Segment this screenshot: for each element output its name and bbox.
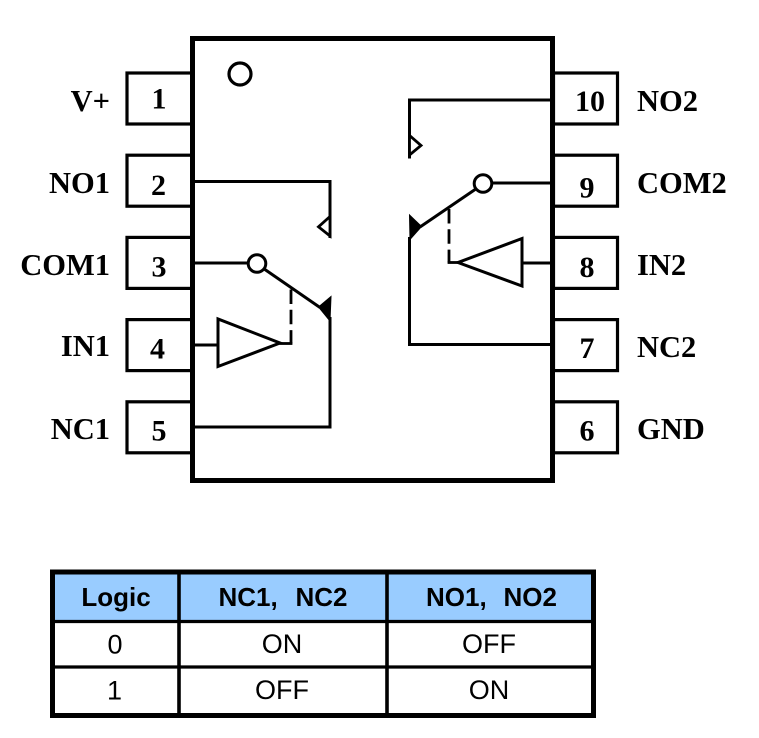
truth table column divider 2: [385, 572, 389, 716]
pin 1 box: [127, 73, 192, 124]
dashed control line SW1 corner to buffer output: [280, 342, 293, 345]
svg-text:4: 4: [150, 333, 165, 366]
truth table header background: [55, 575, 591, 621]
svg-text:IN1: IN1: [61, 329, 110, 363]
pin 2 box: [127, 155, 192, 206]
switch SW2 pivot circle: [474, 175, 492, 193]
svg-text:2: 2: [151, 169, 166, 202]
pin 6 box: [554, 402, 618, 453]
truth table outer border: [53, 572, 594, 716]
pin-1 indicator dot: [229, 63, 251, 85]
svg-text:COM2: COM2: [637, 166, 727, 200]
wire NC2 to pin 7: [410, 237, 551, 345]
switch SW1 pivot circle: [248, 255, 266, 273]
svg-text:COM1: COM1: [20, 248, 110, 282]
wire COM2 from pin 9: [492, 182, 551, 185]
svg-text:ON: ON: [469, 675, 510, 705]
dashed control line SW1: [290, 290, 293, 344]
dashed control line SW2 corner to buffer output: [448, 261, 459, 264]
NO1 contact open triangle: [319, 217, 331, 237]
pin 10 box: [554, 73, 618, 124]
pin 4 box: [127, 320, 192, 371]
svg-text:NC1: NC1: [51, 412, 110, 446]
svg-text:10: 10: [575, 85, 605, 118]
svg-text:NC2: NC2: [637, 330, 696, 364]
svg-text:NO2: NO2: [637, 84, 698, 118]
svg-text:Logic: Logic: [81, 582, 150, 612]
svg-text:OFF: OFF: [255, 675, 309, 705]
buffer B1 triangle: [218, 319, 280, 367]
dashed control line SW2: [448, 209, 451, 263]
svg-text:9: 9: [580, 172, 595, 205]
svg-text:5: 5: [152, 415, 167, 448]
truth table column divider 1: [177, 572, 181, 716]
svg-text:6: 6: [580, 415, 595, 448]
svg-text:1: 1: [107, 676, 122, 706]
svg-text:8: 8: [580, 251, 595, 284]
wire NO2 from pin 10: [410, 100, 551, 159]
svg-text:V+: V+: [71, 84, 110, 118]
svg-text:1: 1: [152, 83, 167, 116]
truth table row divider: [52, 665, 594, 668]
svg-text:OFF: OFF: [462, 629, 516, 659]
switch SW2 arm filled arrowhead: [410, 215, 422, 240]
pin 3 box: [127, 237, 192, 288]
pin 5 box: [127, 402, 192, 453]
svg-text:NO1: NO1: [49, 166, 110, 200]
wire IN2 from pin 8: [522, 262, 550, 265]
svg-text:ON: ON: [262, 629, 303, 659]
pin 8 box: [554, 237, 618, 288]
wire NC1 to pin 5: [195, 317, 330, 427]
NO2 contact open triangle: [410, 136, 422, 156]
switch SW1 arm filled arrowhead: [319, 297, 332, 322]
svg-text:3: 3: [152, 251, 167, 284]
svg-text:0: 0: [107, 630, 122, 660]
svg-text:IN2: IN2: [637, 248, 686, 282]
wire IN1 from pin 4: [195, 344, 218, 347]
buffer B2 triangle: [458, 239, 522, 287]
switch SW2 arm: [420, 189, 476, 227]
pin 7 box: [554, 320, 618, 371]
svg-text:7: 7: [580, 332, 595, 365]
wire NO1 from pin 2: [195, 182, 330, 239]
truth table header underline: [52, 620, 594, 623]
pin 9 box: [554, 155, 618, 206]
svg-text:GND: GND: [637, 412, 705, 446]
wire COM1 from pin 3: [195, 262, 249, 265]
IC body U1: [193, 39, 553, 481]
switch SW1 arm: [264, 269, 320, 308]
